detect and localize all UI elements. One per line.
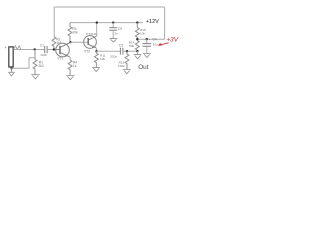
svg-text:Out: Out [138, 64, 149, 71]
transistor VT2 [84, 32, 98, 53]
node input R1 tap [34, 48, 36, 50]
svg-text:+: + [149, 37, 151, 41]
wire C1 to base [47, 49, 56, 51]
capacitor C3 output coupling [120, 48, 123, 55]
resistor R7 [125, 51, 129, 69]
svg-text:C4: C4 [152, 37, 156, 41]
svg-text:C1: C1 [40, 43, 44, 47]
node C4 tap [146, 38, 148, 40]
resistor R1 [33, 49, 37, 74]
wire C3 to out node [123, 50, 137, 52]
ground under R1 [31, 75, 39, 79]
wire VT2 emitter down [96, 48, 98, 51]
svg-text:2k2: 2k2 [39, 64, 44, 68]
wire emitter line to C3 [97, 50, 121, 52]
wire VT1 emitter [68, 57, 71, 60]
wire +12V rail [70, 22, 143, 24]
ground under C5 [109, 39, 117, 42]
capacitor C1 [45, 46, 47, 53]
resistor R5 [136, 21, 138, 23]
ground under R6 [92, 67, 100, 71]
ground under jack [8, 68, 15, 76]
node R7 tap [126, 50, 128, 52]
ground out [134, 55, 142, 59]
node R14 top [136, 38, 138, 40]
svg-text:+12V: +12V [146, 19, 159, 25]
wire left vertical to R2 [53, 7, 55, 37]
svg-text:220n: 220n [110, 54, 117, 58]
node out junction [136, 50, 138, 52]
wire output node line [137, 38, 164, 40]
wire top feedback line [54, 6, 164, 8]
svg-text:VT1: VT1 [57, 57, 63, 61]
wire VT2 collector to rail [96, 23, 98, 36]
wire sleeve return [12, 58, 35, 69]
svg-text:+: + [4, 45, 7, 50]
node VT1 collector / VT2 base [69, 41, 71, 43]
node VT1 base [53, 48, 55, 50]
wire out stub down [136, 51, 138, 54]
svg-text:100k: 100k [118, 64, 125, 68]
ground under R4 [66, 76, 74, 80]
svg-text:KT3102: KT3102 [86, 32, 97, 36]
resistor R3 [68, 23, 72, 43]
wire right vertical to output node [164, 7, 166, 39]
svg-text:VT2: VT2 [84, 49, 90, 53]
svg-text:1k: 1k [73, 64, 77, 68]
wire jack cable wave [14, 46, 21, 50]
node VT2 emitter [95, 50, 97, 52]
capacitor C4 [146, 39, 148, 43]
svg-text:+3V: +3V [166, 36, 179, 43]
annotation red arrow [159, 43, 168, 45]
wire input line to C1 [14, 49, 45, 51]
ground under R7 [123, 70, 131, 74]
wire to VT2 base [71, 41, 89, 43]
svg-text:100n: 100n [40, 53, 47, 57]
svg-text:C9: C9 [118, 27, 122, 31]
resistor R2 [52, 37, 56, 50]
svg-text:10k: 10k [72, 31, 78, 35]
node collector on rail [96, 21, 98, 23]
resistor R6 [95, 51, 99, 67]
ground under C4 [143, 54, 151, 58]
svg-text:C3: C3 [119, 43, 123, 47]
capacitor C5 rail decoupling [112, 21, 114, 23]
resistor R14 volume [135, 39, 139, 51]
svg-text:50k: 50k [129, 44, 134, 48]
svg-text:10u: 10u [153, 42, 158, 46]
resistor R4 [68, 60, 72, 76]
svg-text:2n: 2n [114, 32, 118, 36]
transistor VT1 [56, 42, 71, 60]
svg-text:10k: 10k [100, 57, 105, 61]
connector X1 input jack body [9, 47, 13, 67]
svg-text:10k: 10k [140, 31, 145, 35]
node jack sleeve [10, 67, 12, 69]
